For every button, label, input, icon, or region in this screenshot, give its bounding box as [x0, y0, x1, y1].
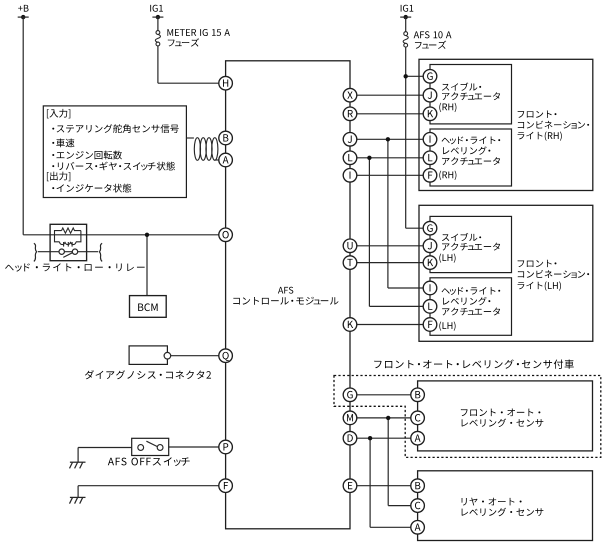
wire pin F to ground	[78, 485, 226, 487]
label indicator state	[52, 184, 131, 193]
BCM box	[130, 296, 167, 318]
label vehicle speed	[52, 139, 74, 148]
wire diagnosis to pin Q	[171, 355, 226, 357]
module pin F	[219, 479, 233, 493]
label front auto leveling sensor	[461, 409, 541, 417]
harness coil to pins B/A	[186, 138, 219, 161]
wire fuse to pin H	[157, 46, 159, 83]
wire switch to ground	[78, 447, 132, 449]
label control module	[233, 297, 338, 305]
leveling actuator LH box	[430, 278, 512, 336]
leveling actuator RH box	[430, 129, 512, 186]
rear auto leveling sensor box	[418, 471, 593, 541]
module pin U (right)	[343, 239, 357, 253]
label front combination light LH	[518, 260, 557, 267]
leveling actuator RH pin L	[423, 151, 437, 165]
module pin T (right)	[343, 256, 357, 270]
label head light low relay	[5, 263, 145, 271]
wire D branch to A(rear)	[369, 438, 371, 527]
swivel actuator LH pin G	[423, 221, 437, 235]
label engine speed	[52, 151, 122, 160]
dashed region: with front auto leveling sensor	[334, 376, 601, 458]
rear sensor pin C	[411, 499, 425, 513]
label +B	[18, 5, 28, 12]
module pin G (right)	[343, 388, 357, 402]
wire U to J(LH)	[350, 245, 430, 247]
wire M to C(front sensor)	[350, 417, 418, 419]
wire D to A(front sensor)	[350, 437, 418, 439]
front sensor pin A	[411, 431, 425, 445]
swivel actuator LH pin J	[423, 239, 437, 253]
module pin X (right)	[343, 88, 357, 102]
wire switch to pin P	[169, 446, 226, 448]
label fuse (right)	[415, 41, 446, 49]
wire IG1 to fuse	[157, 17, 159, 31]
module pin R (right)	[343, 107, 357, 121]
label diagnosis connector 2	[85, 370, 211, 379]
swivel actuator LH pin K	[423, 256, 437, 270]
wire G to B(front sensor)	[350, 394, 418, 396]
AFS OFF switch contacts	[138, 445, 163, 451]
label with front auto leveling sensor	[374, 359, 574, 368]
label AFS OFF switch	[108, 457, 190, 466]
wire M branch to C(rear)	[387, 418, 389, 506]
label leveling actuator RH	[442, 136, 501, 144]
relay box (head light low relay)	[50, 224, 87, 260]
module pin H	[219, 76, 233, 90]
wire I to F(RH)	[350, 174, 430, 176]
input-output box	[43, 106, 186, 198]
leveling actuator RH pin F	[423, 169, 437, 183]
rear sensor pin A	[411, 521, 425, 535]
leveling actuator LH pin F	[423, 318, 437, 332]
module pin M (right)	[343, 411, 357, 425]
wire to pin G LH	[406, 227, 430, 229]
leveling actuator LH pin I	[423, 281, 437, 295]
swivel actuator RH pin J	[423, 88, 437, 102]
junction D branch	[368, 436, 372, 440]
wire J branch to I(LH)	[387, 139, 389, 288]
label swivel actuator LH	[442, 233, 481, 241]
fuse METER IG 15 A	[155, 31, 160, 46]
junction L branch	[367, 156, 371, 160]
front combination light LH box	[419, 205, 593, 341]
label steering angle sensor signal	[52, 124, 179, 133]
module pin L (right)	[343, 151, 357, 165]
rear sensor pin B	[411, 479, 425, 493]
label METER IG 15 A	[167, 29, 229, 36]
swivel actuator LH box	[430, 216, 512, 272]
label swivel actuator RH	[442, 83, 481, 91]
relay switch contacts	[59, 249, 78, 254]
wire R to K(RH)	[350, 113, 430, 115]
label IG1 (right)	[401, 5, 414, 12]
module pin O	[219, 228, 233, 242]
AFS control module outline	[226, 61, 350, 529]
module pin D (right)	[343, 431, 357, 445]
label AFS 10 A	[414, 31, 452, 38]
ground (pin F)	[70, 497, 86, 503]
fuse AFS 10 A	[403, 32, 408, 47]
wire +B to pin O	[23, 234, 225, 236]
label fuse (left)	[168, 38, 199, 46]
module pin P	[219, 440, 233, 454]
swivel actuator RH pin G	[423, 70, 437, 84]
front auto leveling sensor box	[418, 381, 593, 451]
wire E to B(rear sensor)	[350, 485, 418, 487]
swivel actuator RH box	[430, 65, 512, 124]
wire T to K(LH)	[350, 262, 430, 264]
junction M branch	[386, 416, 390, 420]
module pin K (right)	[343, 318, 357, 332]
junction BCM branch	[145, 233, 149, 237]
wire to pin G RH	[406, 75, 430, 77]
junction fuse/G-RH	[404, 74, 408, 78]
module pin Q	[219, 349, 233, 363]
label IG1 (left)	[150, 5, 163, 12]
wire L branch to L(LH)	[368, 158, 370, 307]
wire AFS fuse bus	[405, 47, 407, 228]
relay brace left	[34, 243, 37, 261]
wire to BCM	[146, 235, 148, 296]
front sensor pin C	[411, 411, 425, 425]
junction J branch	[386, 137, 390, 141]
wire K to F(LH)	[350, 324, 430, 326]
ground (AFS OFF switch)	[70, 462, 86, 468]
front combination light RH box	[419, 59, 593, 190]
label AFS (module)	[278, 287, 293, 294]
wire L to L(RH)	[350, 157, 430, 159]
label front combination light RH	[518, 110, 557, 117]
wire X to J(RH)	[350, 94, 430, 96]
ignition IG1 terminal (left)	[152, 15, 163, 19]
module pin E (right)	[343, 479, 357, 493]
label leveling actuator LH	[442, 287, 501, 295]
swivel actuator RH pin K	[423, 107, 437, 121]
module pin A	[219, 153, 233, 167]
relay switch wire	[38, 251, 98, 253]
label [input]	[47, 109, 70, 119]
module pin B	[219, 131, 233, 145]
label [output]	[47, 172, 70, 182]
leveling actuator LH pin L	[423, 300, 437, 314]
AFS OFF switch box	[132, 438, 169, 455]
ignition IG1 terminal (right)	[400, 15, 411, 19]
relay coil block	[55, 228, 81, 247]
label rear auto leveling sensor	[462, 498, 522, 506]
relay brace right	[99, 243, 102, 261]
wire +B vertical	[22, 17, 24, 235]
label reverse gear switch state	[52, 162, 175, 171]
leveling actuator RH pin I	[423, 133, 437, 147]
front sensor pin B	[411, 388, 425, 402]
wire J to I(RH)	[350, 138, 430, 140]
module pin I (right)	[343, 169, 357, 183]
diagnosis connector 2 box	[129, 346, 167, 365]
module pin J (right)	[343, 133, 357, 147]
diagnosis connector contact	[164, 352, 171, 359]
label BCM	[138, 303, 157, 311]
battery +B terminal	[18, 15, 29, 19]
wire IG1 to fuse (right)	[405, 17, 407, 32]
